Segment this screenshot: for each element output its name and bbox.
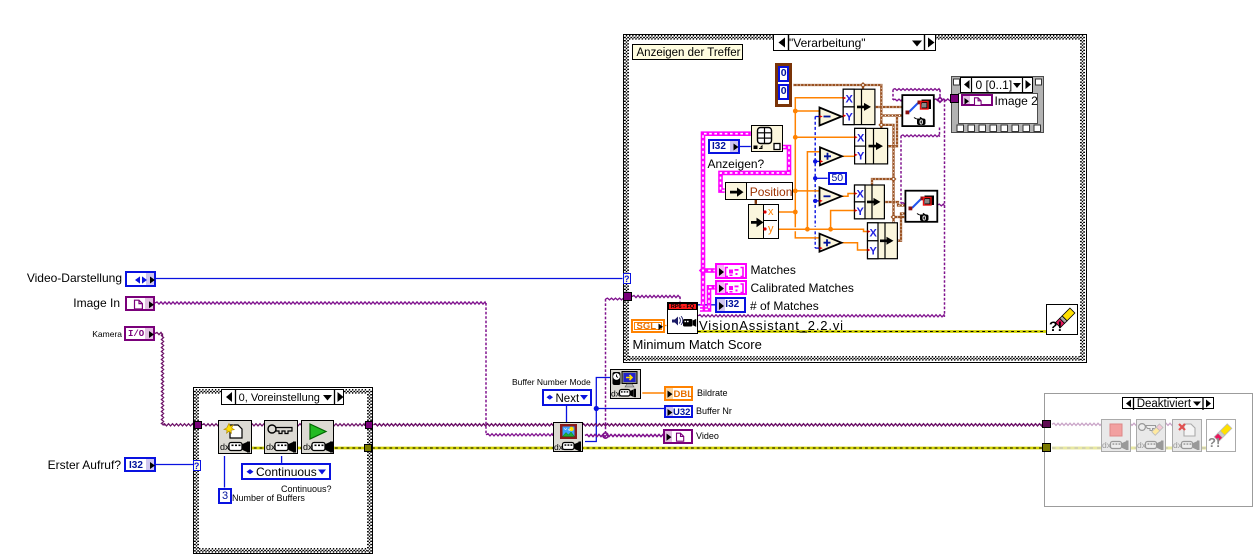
junction image wire [603, 433, 608, 438]
VI IMAQdx configure grab [264, 420, 298, 454]
control Video-Darstellung [125, 271, 156, 287]
wire error line main [219, 447, 364, 450]
indicator Calibrated Matches [715, 280, 747, 295]
wire faded error in Deaktiviert [1052, 447, 1206, 450]
case selector terminal ? big case [623, 273, 631, 284]
VI IMAQdx open camera [218, 420, 252, 454]
selector Deaktiviert [1122, 397, 1214, 410]
wire bundle1 to overlay VI1 [875, 106, 902, 108]
film sprocket holes [951, 76, 1051, 136]
label Buffer Number Mode [512, 378, 591, 387]
label Erster Aufruf? [0, 459, 121, 472]
wire SGL to VisionAssistant [665, 325, 667, 327]
wire Erster Aufruf to case selector [156, 464, 193, 466]
wire orange vertical net 2 [807, 152, 820, 230]
case selector "Verarbeitung" [773, 34, 936, 51]
wire orange vertical net 1 [795, 98, 843, 228]
svg-text:X: X [857, 133, 865, 145]
bundle node 1 [843, 89, 875, 124]
bundle node 2 [855, 128, 888, 164]
constant SGL [631, 319, 665, 333]
wire session through Voreinstellung case [202, 424, 365, 426]
wire framerate VI to DBL [642, 392, 664, 394]
op add upper [820, 147, 842, 165]
unbundle xy [748, 204, 779, 239]
control I32 Anzeigen [708, 139, 741, 154]
VI disabled unconfigure [1136, 419, 1166, 453]
bundle node 4 [868, 223, 898, 259]
indicator Video [663, 429, 693, 444]
sequence selector 0 [0..1] [960, 77, 1034, 93]
VI simple error handler [1046, 304, 1078, 335]
label Kamera [60, 330, 122, 339]
wire Kamera session to Voreinstellung case [155, 332, 194, 426]
case selector terminal ? [193, 460, 201, 471]
wire bundle2 to overlay VI1 [888, 116, 903, 147]
wire image over blue redraw [585, 434, 663, 436]
wire image VisionAssistant to overlay chain [698, 315, 945, 317]
cluster constant 0 0 [775, 63, 793, 107]
wire 3 to open VI [224, 456, 226, 488]
svg-text:X: X [857, 189, 865, 201]
op subtract upper [820, 108, 842, 126]
svg-text:0: 0 [919, 119, 923, 126]
svg-text:Y: Y [857, 151, 865, 163]
wire image overlay VI1 out to sequence tunnel [934, 99, 953, 101]
label Image In [0, 297, 120, 310]
wire 0 0 cluster to bundles [793, 85, 881, 129]
frame label Anzeigen der Treffer [632, 44, 743, 60]
label Continuous? [281, 485, 332, 494]
VI disabled stop acquisition [1101, 419, 1131, 453]
svg-text:?!: ?! [1208, 435, 1220, 450]
control Kamera [124, 326, 155, 341]
wire Continuous to configure VI [281, 456, 283, 463]
tunnel image into sequence [950, 94, 959, 103]
wire Next enum to grab VI [566, 406, 568, 423]
wire Calibrated Matches from VisionAssistant [700, 287, 715, 309]
label VisionAssistant_2.2.vi [699, 318, 844, 333]
svg-text:X: X [870, 227, 878, 239]
indicator Image 2 [961, 94, 993, 107]
wire image branch up into Verarbeitung case [605, 299, 607, 436]
control Image In [125, 296, 155, 312]
tunnel image into case [623, 292, 632, 301]
case selector 0, Voreinstellung [221, 389, 345, 405]
label Video-Darstellung [0, 272, 122, 285]
case structure Verarbeitung border [623, 34, 1088, 363]
VI IMAQdx grab [553, 422, 583, 453]
svg-text:Y: Y [857, 206, 865, 218]
wire Matches branch to indicator [703, 268, 715, 273]
VI disabled dispose [1172, 419, 1202, 453]
indicator U32 Buffer Nr [664, 405, 693, 419]
VI overlay line 2 [905, 191, 937, 223]
wire image from grab VI to Video indicator [585, 434, 663, 436]
svg-text:X: X [846, 94, 854, 106]
wire cluster grid VI to Position unbundle [721, 147, 790, 191]
label Minimum Match Score [633, 337, 762, 352]
case structure 0 Voreinstellung border [193, 387, 374, 554]
wire Matches array from VisionAssistant [700, 134, 751, 307]
indicator DBL Bildrate [664, 386, 693, 401]
VI cluster-grid node [751, 125, 783, 152]
wire Image In to grab VI [155, 302, 486, 304]
bundle node 3 [855, 185, 885, 219]
wire image overlay VI2 out [937, 204, 944, 206]
VI IMAQdx framerate (clock+monitor) [610, 369, 641, 399]
diagram disable structure Deaktiviert [1044, 393, 1253, 507]
wire VisionAssistant to number of matches [698, 304, 715, 306]
control Erster Aufruf I32 [124, 457, 156, 472]
wire image staircase into overlay VI2 [939, 128, 941, 136]
junction image diamond [937, 96, 944, 103]
svg-text:Y: Y [846, 112, 854, 124]
tunnel error right [364, 444, 373, 453]
label Number of Buffers [232, 494, 305, 503]
wire 50 constant net [815, 177, 827, 179]
svg-text:Y: Y [870, 246, 878, 258]
wire faded session in Deaktiviert [1052, 423, 1172, 425]
wire orange y line [779, 229, 868, 231]
wire image tunnel to VisionAssistant [632, 295, 680, 297]
op add lower [820, 234, 842, 252]
op subtract lower [820, 187, 842, 205]
indicator Matches [715, 263, 747, 279]
enum constant Continuous [241, 463, 331, 481]
numeric constant 3 [218, 488, 232, 505]
VI disabled error handler [1206, 419, 1236, 453]
sequence structure film frame [951, 76, 1044, 133]
wire op outputs [842, 116, 844, 118]
unbundle by name Position [725, 182, 793, 200]
numeric constant 50 [828, 172, 847, 185]
VI IMAQdx start acquisition [301, 420, 335, 454]
indicator number of Matches I32 [715, 297, 746, 313]
wire Video-Darstellung to case selector [156, 278, 623, 280]
label Anzeigen? [708, 158, 765, 171]
svg-text:0: 0 [922, 215, 926, 222]
enum constant Next [542, 389, 592, 406]
tunnel error Deaktiviert [1042, 443, 1051, 452]
junction image wire ring redraw [603, 433, 608, 438]
wire bundle3 to overlay VI2 [884, 202, 905, 206]
tunnel session right [365, 421, 374, 430]
tunnel session left [194, 421, 203, 430]
wire Anzeigen I32 to grid VI [740, 146, 751, 148]
VI VisionAssistant [667, 302, 699, 334]
wire grab VI buffer out to U32 and framerate VI [585, 378, 610, 442]
wire session from Voreinstellung to Deaktiviert structure [374, 424, 1043, 426]
wire Position to xy unbundle [755, 200, 757, 204]
wire image loop into overlay VI1 [893, 89, 940, 91]
tunnel session Deaktiviert [1042, 420, 1051, 429]
wire bundle4 to overlay VI2 [897, 214, 905, 241]
VI overlay line 1 [902, 95, 934, 126]
wire error VisionAssistant to error handler [698, 330, 1046, 333]
